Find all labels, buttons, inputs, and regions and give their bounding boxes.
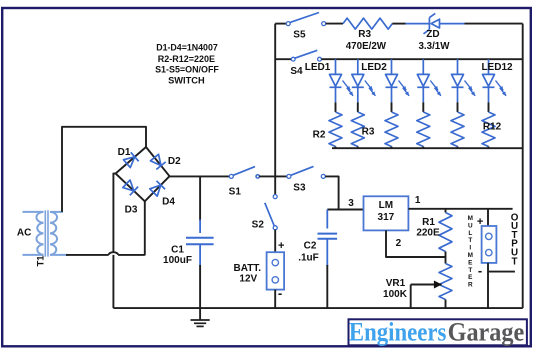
wire LED bottom bus (332, 147, 523, 149)
svg-text:D2: D2 (168, 156, 181, 167)
svg-text:R: R (468, 282, 473, 289)
LED 6 (column) (483, 59, 507, 102)
LED 1 (column) (330, 59, 354, 102)
logo text (349, 317, 524, 346)
label battery minus (278, 286, 282, 301)
label multimeter (468, 215, 474, 289)
wire battery to bus (274, 290, 276, 309)
logo box (349, 319, 527, 345)
zener ZD (406, 13, 465, 33)
wire feed to S5 (275, 23, 286, 25)
resistor column 1 (329, 112, 342, 148)
label BATT (234, 263, 262, 284)
wire bridge left corner down with hop (109, 173, 118, 308)
label ZD value (418, 41, 450, 52)
wire R3 to ZD (392, 23, 405, 25)
label D4 (162, 197, 175, 208)
transformer T1 (23, 210, 69, 256)
svg-text:-: - (278, 286, 282, 301)
label S5 (293, 30, 306, 41)
svg-text:ZD: ZD (426, 29, 439, 40)
svg-text:S2: S2 (252, 219, 265, 230)
svg-text:+: + (477, 216, 483, 228)
svg-text:R3: R3 (358, 29, 371, 40)
switch S1 (229, 167, 287, 179)
switch S2 (265, 195, 277, 230)
svg-text:100uF: 100uF (163, 255, 192, 266)
LED 5 (column) (452, 59, 476, 102)
resistor column 2 (351, 112, 364, 148)
wire LED top bus (321, 58, 522, 60)
svg-text:C1: C1 (171, 244, 184, 255)
svg-text:100K: 100K (383, 289, 408, 300)
label battery plus (278, 240, 284, 252)
svg-text:E: E (468, 274, 473, 281)
wire bottom bus (113, 307, 522, 309)
label R12 (483, 121, 502, 132)
ground (191, 308, 210, 326)
svg-text:I: I (469, 245, 471, 252)
switch S5 (286, 13, 326, 26)
svg-text:S4: S4 (290, 66, 303, 77)
capacitor C1 (186, 238, 214, 308)
wire S3 to regulator (325, 176, 363, 209)
LED 3 (column) (386, 59, 410, 102)
svg-text:Engineers: Engineers (349, 317, 447, 346)
svg-text:L: L (468, 230, 472, 237)
svg-text:VR1: VR1 (386, 278, 406, 289)
label pin 3 (348, 198, 354, 209)
label T1 (36, 255, 47, 267)
label AC (17, 228, 31, 239)
svg-text:AC: AC (17, 228, 31, 239)
LED column 4 cathode stub (422, 102, 424, 112)
wire multimeter bottom (487, 263, 489, 308)
label plus (477, 216, 483, 228)
wire right vertical (522, 24, 524, 309)
diode D3 (122, 179, 138, 195)
wire output minus (488, 271, 515, 273)
label S2 (252, 219, 265, 230)
label C2 (298, 240, 319, 263)
label R3 value (346, 41, 387, 52)
svg-text:R3: R3 (362, 127, 375, 138)
label D3 (125, 205, 138, 216)
svg-text:2: 2 (396, 238, 402, 249)
label LED1 (305, 62, 331, 73)
svg-text:S5: S5 (293, 30, 306, 41)
svg-text:+: + (278, 240, 284, 252)
wire multimeter top (487, 209, 489, 226)
wire ZD to right vertical (465, 23, 523, 25)
wire secondary bottom to bridge bottom (66, 201, 145, 255)
resistor column 6 (482, 112, 495, 148)
svg-text:R12: R12 (483, 121, 502, 132)
svg-text:U: U (468, 222, 473, 229)
wiper arrow VR1 (411, 285, 442, 309)
resistor column 5 (451, 112, 464, 148)
label pin 2 (396, 238, 402, 249)
LED 4 (column) (417, 59, 441, 102)
switch S4 (275, 50, 321, 61)
svg-text:T1: T1 (36, 255, 47, 267)
svg-text:470E/2W: 470E/2W (346, 41, 387, 52)
wire S5 to R3 (326, 23, 343, 25)
label pin 1 (415, 195, 421, 206)
svg-text:T: T (468, 237, 472, 244)
resistor column 3 (385, 112, 398, 148)
svg-text:3.3/1W: 3.3/1W (418, 41, 450, 52)
svg-text:12V: 12V (239, 273, 257, 284)
label VR1 (383, 278, 408, 300)
svg-text:D3: D3 (125, 205, 138, 216)
potentiometer VR1 (439, 257, 452, 308)
label S4 (290, 66, 303, 77)
wire vertical feed (274, 24, 276, 195)
svg-text:LM: LM (379, 200, 393, 211)
svg-text:S1-S5=ON/OFF: S1-S5=ON/OFF (155, 64, 219, 75)
wire pin 2 (386, 230, 446, 257)
svg-text:-: - (478, 263, 482, 278)
svg-text:D4: D4 (162, 197, 175, 208)
LED 2 (column) (352, 59, 376, 102)
svg-text:M: M (468, 252, 473, 259)
svg-text:3: 3 (348, 198, 354, 209)
svg-text:D1-D4=1N4007: D1-D4=1N4007 (156, 43, 218, 54)
LED column 3 cathode stub (391, 102, 393, 112)
label minus (478, 263, 482, 278)
svg-text:.1uF: .1uF (298, 252, 319, 263)
LED column 1 cathode stub (335, 102, 337, 112)
label D1 (118, 147, 131, 158)
diode D4 (149, 181, 165, 197)
bridge rectifier outline (116, 147, 170, 201)
svg-text:T: T (512, 256, 518, 267)
diode D1 (123, 152, 139, 168)
svg-text:S1: S1 (229, 186, 242, 197)
wire C1 branch (199, 176, 201, 233)
label R1 (416, 217, 440, 238)
LED column 2 cathode stub (357, 102, 359, 112)
wire pin 1 output rail (408, 208, 512, 210)
svg-text:LED1: LED1 (305, 62, 331, 73)
capacitor C2 (318, 210, 338, 309)
label LED2 (361, 62, 387, 73)
label R3 column (362, 127, 375, 138)
LED column 5 cathode stub (457, 102, 459, 112)
svg-text:T: T (468, 267, 472, 274)
label S3 (293, 183, 306, 194)
switch S3 (287, 166, 325, 178)
wire S2 to battery (274, 230, 276, 253)
multimeter box (482, 226, 497, 263)
svg-text:E: E (468, 259, 473, 266)
label S1 (229, 186, 242, 197)
LED column 6 cathode stub (488, 102, 490, 112)
svg-text:R2: R2 (313, 130, 326, 141)
svg-text:C2: C2 (304, 240, 317, 251)
resistor R1 (439, 209, 452, 257)
wire secondary top to bridge top (62, 127, 146, 212)
svg-text:220E: 220E (416, 227, 440, 238)
battery BATT 12V box (267, 252, 285, 289)
label output (511, 212, 519, 267)
wire bridge right corner to S1 (170, 175, 230, 177)
svg-text:Garage: Garage (448, 317, 525, 346)
svg-text:1: 1 (415, 195, 421, 206)
label C1 (163, 244, 192, 265)
note text block (155, 43, 219, 87)
label ZD (426, 29, 439, 40)
regulator U1 LM317 box (364, 196, 409, 230)
svg-text:317: 317 (378, 212, 395, 223)
diode D2 (150, 154, 166, 170)
svg-text:LED12: LED12 (481, 62, 513, 73)
resistor column 4 (417, 112, 430, 148)
resistor R3 top (343, 18, 392, 29)
svg-text:M: M (468, 215, 473, 222)
label LED12 (481, 62, 513, 73)
label R2 (313, 130, 326, 141)
label D2 (168, 156, 181, 167)
svg-text:LED2: LED2 (361, 62, 387, 73)
svg-text:S3: S3 (293, 183, 306, 194)
svg-text:D1: D1 (118, 147, 131, 158)
svg-text:SWITCH: SWITCH (168, 76, 205, 87)
label R3 top (358, 29, 371, 40)
